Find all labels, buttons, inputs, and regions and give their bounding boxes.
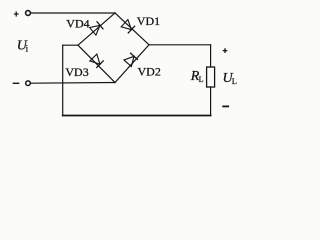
wire bridge edge top-to-right (VD1 edge) [115, 13, 149, 45]
wire load top drop [210, 45, 212, 67]
wire bridge edge left-to-bottom (VD3 edge) [78, 45, 115, 82]
diode VD4 [89, 21, 103, 35]
svg-text:VD2: VD2 [138, 64, 161, 78]
wire bridge edge bottom-to-right (VD2 edge) [115, 45, 149, 83]
wire bridge edge left-to-top (VD4 edge) [78, 13, 115, 45]
label minus output polarity [222, 105, 229, 107]
svg-text:L: L [199, 75, 204, 84]
wire bottom return [63, 115, 211, 117]
svg-text:VD4: VD4 [66, 16, 89, 30]
diode VD2 [124, 53, 138, 67]
node plus-input terminal [26, 11, 31, 16]
diode VD1 [121, 19, 135, 33]
wire right vertex to load top corner [149, 44, 211, 46]
wire left vertex stub [63, 44, 78, 46]
wire load bottom drop [210, 87, 212, 116]
diode VD3 [90, 54, 104, 68]
wire left vertical drop [62, 45, 64, 115]
svg-text:L: L [232, 76, 237, 86]
label plus input polarity [14, 11, 19, 16]
wire top input to bridge top vertex [31, 12, 115, 14]
svg-text:VD1: VD1 [137, 14, 160, 28]
wire bottom input to bridge bottom vertex [31, 82, 115, 85]
label minus input polarity [13, 82, 20, 84]
label plus output polarity [223, 48, 228, 53]
resistor RL body [207, 67, 215, 87]
svg-text:VD3: VD3 [65, 65, 88, 79]
node minus-input terminal [26, 81, 31, 86]
